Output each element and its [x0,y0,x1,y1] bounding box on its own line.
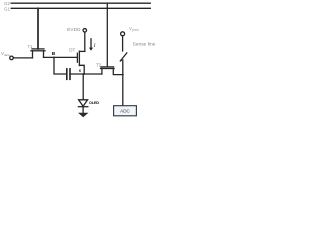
current arrow I [89,39,93,51]
capacitor Cst [67,69,70,79]
svg-text:T2: T2 [96,62,102,67]
svg-text:G1: G1 [4,6,11,11]
node S junction [83,73,85,75]
diode OLED [78,100,87,113]
wire node B to capacitor [54,57,67,74]
node G1-T1 junction [37,8,39,10]
wire node S to OLED [82,74,84,100]
wire sense line [122,60,124,106]
transistor T2 [101,67,123,75]
switch pivot dot [120,59,122,61]
switch blade [120,53,127,61]
wire T2 gate from G2 [106,3,108,67]
wire EVDD to DT drain [84,32,86,51]
terminal Vpre [121,32,125,36]
transistor DT [77,51,84,74]
svg-text:EVDD: EVDD [67,27,81,32]
node B junction [53,56,55,58]
svg-text:Sense line: Sense line [133,41,156,46]
transistor T1 [31,49,45,58]
node G2-T2 junction [107,2,109,4]
svg-text:s: s [79,68,82,73]
wire Vpre to switch [122,36,124,51]
node sense-T2 junction [122,74,124,76]
wire G1 rail [11,7,150,9]
wire capacitor to node S to T2 [70,73,102,75]
svg-text:B: B [52,51,56,57]
wire T1 gate from G1 [37,8,39,49]
terminal Vdata [10,56,14,60]
svg-text:T1: T1 [28,44,34,49]
wire Vdata to T1 [13,57,32,59]
block ADC [114,106,137,116]
svg-text:OLED: OLED [89,100,99,105]
terminal EVDD [83,29,87,33]
wire G2 rail [11,2,150,4]
svg-text:I: I [93,44,96,49]
svg-text:Vdata: Vdata [1,51,10,57]
wire T1 to node B to DT gate [44,56,78,58]
svg-text:Vpres: Vpres [129,26,139,32]
svg-text:ADC: ADC [120,109,130,114]
svg-text:DT: DT [69,48,75,53]
ground [78,113,88,118]
